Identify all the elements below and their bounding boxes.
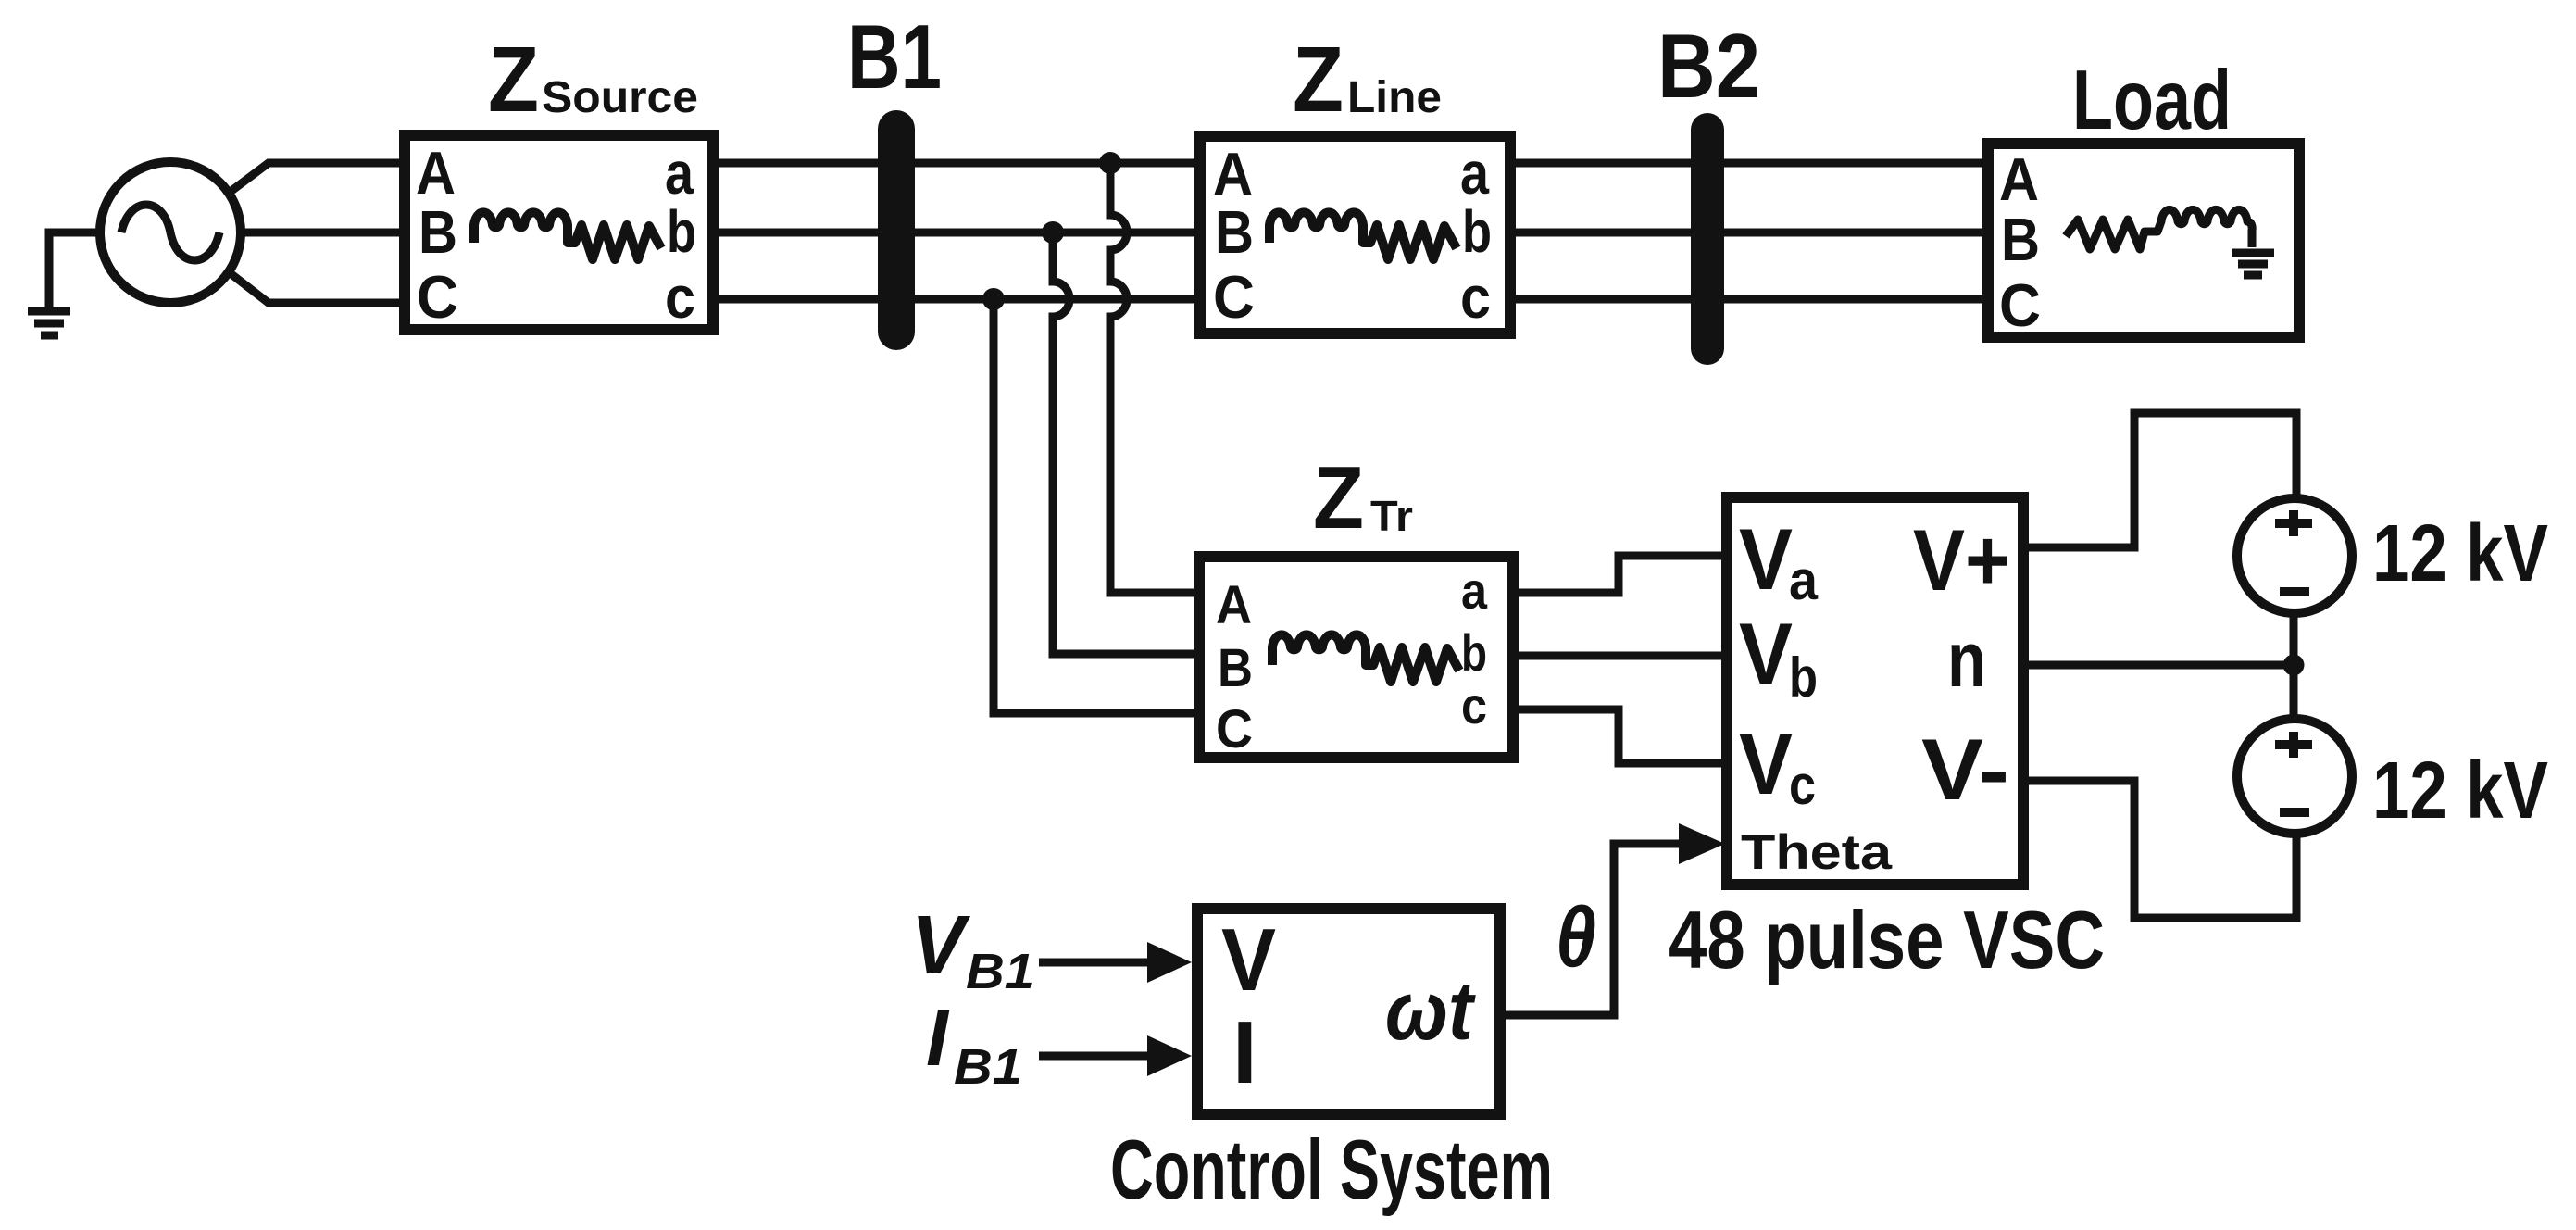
svg-text:Line: Line [1347, 73, 1442, 122]
svg-text:B: B [1218, 638, 1253, 698]
svg-text:Z: Z [1313, 448, 1364, 547]
Z_Tr impedance symbol [1272, 634, 1459, 682]
svg-text:b: b [667, 198, 696, 265]
svg-text:Control System: Control System [1110, 1123, 1553, 1217]
svg-text:V: V [1221, 910, 1276, 1010]
svg-text:Tr: Tr [1370, 492, 1413, 540]
Z_Line box [1200, 136, 1510, 333]
wire b from Z_Tr to VSC Vb [1513, 652, 1725, 660]
wire n to DC midpoint [2024, 661, 2294, 670]
ground (load) [2232, 253, 2274, 275]
node A tap [1099, 152, 1121, 174]
svg-text:V: V [1739, 605, 1793, 702]
svg-text:B2: B2 [1657, 15, 1760, 117]
48 pulse VSC box [1727, 497, 2023, 885]
svg-text:V: V [1739, 510, 1793, 608]
svg-text:c: c [1461, 676, 1487, 734]
svg-text:A: A [1216, 575, 1252, 635]
svg-text:48 pulse VSC: 48 pulse VSC [1669, 894, 2105, 985]
wire V+ to top DC source [2024, 413, 2296, 547]
bus bar B2 [1691, 113, 1724, 365]
svg-text:12 kV: 12 kV [2372, 746, 2548, 835]
svg-text:V: V [1739, 715, 1793, 812]
svg-text:C: C [417, 263, 458, 331]
wire from AC source to ground [49, 232, 101, 307]
svg-text:a: a [1789, 549, 1819, 611]
wire A from Z_Source to Z_Line [713, 159, 1200, 168]
wire a from Z_Tr to VSC Va [1513, 556, 1725, 593]
svg-text:V-: V- [1921, 721, 2009, 818]
wire phase C source to Z_Source [228, 271, 405, 303]
svg-text:Theta: Theta [1741, 825, 1893, 880]
svg-text:c: c [1789, 754, 1816, 816]
node B tap [1042, 221, 1064, 244]
Z_Line impedance symbol [1269, 212, 1457, 259]
wire a from Z_Line to Load [1510, 159, 1988, 168]
svg-text:I: I [1232, 1003, 1257, 1102]
svg-text:Z: Z [1293, 28, 1344, 132]
svg-text:Source: Source [542, 73, 698, 122]
svg-text:b: b [1461, 623, 1487, 682]
wire c from Z_Line to Load [1510, 295, 1988, 304]
tap wire C down to Z_Tr [994, 299, 1199, 713]
svg-text:c: c [665, 264, 695, 331]
svg-text:C: C [1216, 699, 1253, 759]
svg-text:B: B [419, 198, 457, 266]
wire between DC sources [2290, 612, 2298, 720]
svg-text:C: C [1999, 271, 2041, 339]
svg-text:a: a [1460, 140, 1489, 207]
svg-text:V: V [911, 899, 971, 992]
svg-text:n: n [1947, 616, 1986, 703]
node n junction [2283, 655, 2305, 676]
svg-text:I: I [926, 994, 950, 1083]
svg-text:ωt: ωt [1385, 965, 1477, 1058]
DC source bottom 12 kV [2237, 719, 2352, 834]
svg-text:B1: B1 [847, 6, 942, 107]
load resistor+inductor [2066, 209, 2252, 249]
wire phase A source to Z_Source [228, 163, 405, 194]
node C tap [982, 288, 1005, 310]
wire C from Z_Source to Z_Line [713, 295, 1200, 304]
svg-text:Z: Z [488, 28, 539, 132]
wire B from Z_Source to Z_Line [713, 229, 1200, 237]
AC source generator [100, 162, 241, 303]
svg-text:B: B [2001, 206, 2040, 273]
svg-text:a: a [665, 140, 694, 207]
Z_Source impedance symbol [474, 212, 661, 259]
bus bar B1 [878, 110, 915, 350]
svg-text:C: C [1213, 263, 1255, 331]
svg-text:B1: B1 [954, 1039, 1022, 1095]
svg-text:θ: θ [1556, 890, 1596, 985]
arrow VB1 into control [1039, 959, 1147, 967]
Z_Tr box [1199, 557, 1513, 758]
svg-text:B: B [1215, 198, 1254, 266]
arrow IB1 into control [1039, 1052, 1147, 1061]
svg-text:b: b [1789, 646, 1818, 709]
tap wire B down to Z_Tr (with hop over C) [1053, 232, 1199, 654]
svg-text:b: b [1462, 198, 1492, 265]
svg-text:Load: Load [2072, 54, 2232, 147]
wire V- to bottom DC source [2024, 781, 2296, 918]
svg-text:B1: B1 [966, 944, 1034, 999]
svg-text:A: A [1999, 145, 2039, 213]
wire b from Z_Line to Load [1510, 229, 1988, 237]
Control System box [1197, 909, 1500, 1114]
svg-text:a: a [1461, 561, 1488, 620]
arrowhead theta [1679, 823, 1725, 864]
Z_Source box [405, 135, 713, 330]
tap wire A down to Z_Tr (with hops over B and C) [1110, 163, 1199, 593]
AC source sine symbol [121, 205, 219, 260]
wire c from Z_Tr to VSC Vc [1513, 709, 1725, 763]
svg-text:V+: V+ [1913, 511, 2010, 609]
Load box [1988, 144, 2299, 337]
DC source top 12 kV [2237, 498, 2352, 613]
svg-text:A: A [416, 139, 456, 207]
ground (source) [28, 311, 70, 335]
svg-text:c: c [1460, 264, 1491, 331]
svg-text:12 kV: 12 kV [2372, 508, 2548, 598]
wire theta from control wt to VSC Theta [1500, 844, 1679, 1015]
wire phase B source to Z_Source [240, 229, 405, 237]
